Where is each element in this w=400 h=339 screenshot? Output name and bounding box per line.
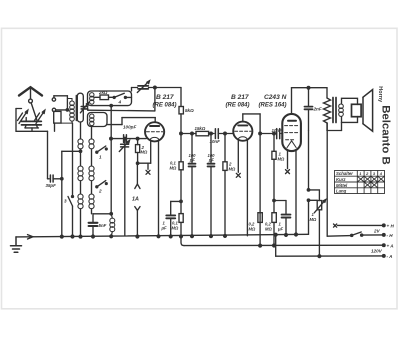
svg-text:B 217: B 217 — [156, 94, 174, 101]
vertical rail 111 — [110, 104, 113, 237]
svg-text:2: 2 — [98, 189, 102, 194]
battery line +A — [184, 244, 385, 247]
label 35pF — [46, 183, 57, 188]
grid resistor 2MOhm V2 — [223, 132, 227, 237]
tube V2 anode bar — [238, 124, 247, 126]
battery line -H with switch — [327, 232, 385, 236]
svg-text:- A: - A — [387, 254, 393, 259]
capacitor 1uF b — [282, 215, 291, 237]
svg-text:Schalter: Schalter — [336, 171, 353, 176]
label tube V1 — [153, 94, 177, 109]
antenna trimmer capacitor C-ant2 — [32, 121, 42, 125]
band switch box (coil box 1) — [88, 91, 132, 106]
label 1A — [132, 197, 139, 203]
label 15kOhm — [195, 126, 206, 131]
x mark V2 — [236, 173, 240, 177]
headphone jack 1A — [135, 163, 140, 238]
wire top feed — [52, 96, 67, 110]
resistor 0,2MOhm 1 — [258, 213, 262, 223]
svg-text:pF: pF — [208, 158, 215, 163]
speaker wires — [342, 98, 358, 122]
tube V1 filament — [150, 137, 159, 139]
tube V3 anode bar — [288, 120, 296, 122]
svg-text:2kΩ: 2kΩ — [98, 90, 108, 95]
svg-text:μF: μF — [161, 226, 168, 231]
svg-text:MΩ: MΩ — [170, 165, 177, 170]
wire 5nF tie — [93, 213, 112, 215]
svg-text:1: 1 — [99, 155, 102, 160]
svg-text:4: 4 — [379, 171, 383, 176]
label 0,2MOhm 1 — [249, 221, 256, 231]
resistor 2kOhm — [95, 95, 113, 100]
svg-text:100pF: 100pF — [123, 125, 136, 130]
label 0,1MOhm a — [170, 161, 177, 171]
x mark V1 — [146, 170, 150, 174]
capacitor 1uF a — [166, 215, 175, 237]
label 2MOhm V2 — [228, 162, 236, 172]
label 1uF a — [161, 221, 168, 231]
svg-text:MΩ: MΩ — [265, 226, 272, 231]
left vertical from antenna box — [16, 131, 48, 179]
svg-text:+ A: + A — [387, 243, 394, 248]
transformer core — [333, 98, 336, 123]
decoupling resistor 0,1MOhm a — [179, 134, 183, 214]
label 100pF grid — [123, 125, 136, 130]
arrow through C-ant1 — [18, 110, 28, 123]
svg-text:4: 4 — [118, 100, 122, 105]
junction node grid feed — [88, 86, 156, 111]
label 100pF 1 — [189, 153, 197, 162]
label 5kOhm — [185, 108, 194, 113]
vertical rail 72.5 with switch 3 — [68, 123, 74, 238]
label 0,2MOhm 2 — [265, 221, 272, 231]
table text — [336, 171, 383, 193]
wire pot to bus — [308, 200, 310, 234]
antenna coupling coil L1 — [61, 93, 83, 123]
feedback coil — [110, 214, 115, 237]
svg-text:Belcanto B: Belcanto B — [379, 105, 391, 165]
wire -A to bus — [274, 233, 277, 256]
tuning coil B — [89, 127, 94, 214]
cathode tee V1 — [136, 162, 150, 169]
title Belcanto B — [379, 105, 391, 165]
svg-text:- H: - H — [387, 233, 394, 238]
tube V2 grid dashes — [235, 130, 251, 132]
svg-text:(RE 084): (RE 084) — [226, 103, 250, 109]
coil L3 in box2 — [90, 114, 94, 126]
label -H — [387, 233, 394, 238]
tube V2 anode feed — [243, 114, 262, 247]
output transformer primary (zigzag) — [324, 88, 331, 131]
speaker horn — [363, 90, 373, 132]
label 100pF 2 — [208, 153, 216, 162]
wire transformer bottom tie — [309, 122, 342, 130]
svg-text:+ H: + H — [387, 224, 395, 229]
x mark V3 — [286, 170, 290, 174]
signal line stage1 — [180, 132, 196, 135]
svg-text:C243 N: C243 N — [264, 94, 287, 101]
label +A 120V — [371, 243, 394, 253]
capacitor 1uF a corner — [171, 200, 183, 215]
grid wire with 100pF to tube V1 — [110, 137, 147, 140]
svg-text:2nF: 2nF — [313, 106, 322, 111]
capacitor 1uF b corner — [273, 199, 286, 214]
label 10nF b — [272, 128, 283, 133]
capacitor 35pF — [48, 175, 62, 182]
resistor 5kOhm — [179, 88, 183, 134]
svg-text:pF: pF — [189, 158, 196, 163]
switch 1 — [96, 146, 107, 153]
transformer secondary coil — [339, 104, 344, 116]
capacitor 5nF — [89, 214, 98, 238]
wire top rail to trimmer — [132, 88, 182, 92]
tube V1 legs — [151, 141, 160, 238]
battery line -A — [276, 255, 385, 258]
table crosses — [357, 176, 384, 188]
label tube V3 — [259, 94, 287, 109]
svg-text:1: 1 — [359, 171, 362, 176]
ground bus — [16, 234, 309, 237]
vertical rail 64.5 — [60, 151, 80, 238]
resistor 0,2MOhm 2 — [272, 213, 276, 247]
svg-text:15kΩ: 15kΩ — [195, 126, 206, 131]
wire — [87, 108, 89, 111]
battery line +H — [334, 224, 386, 227]
label 2nF — [313, 106, 322, 111]
tube V2 B217 — [233, 122, 252, 141]
svg-text:MΩ: MΩ — [278, 156, 285, 161]
tube V3 C243N — [282, 114, 301, 151]
label 1 — [99, 155, 102, 160]
svg-text:Lang: Lang — [336, 189, 347, 194]
switch 4 — [113, 93, 131, 98]
label 0,1MOhm b — [172, 221, 179, 231]
label 10nF a — [210, 139, 221, 144]
svg-text:5kΩ: 5kΩ — [185, 108, 194, 113]
capacitor 100pF 2 — [208, 132, 215, 237]
antenna block wires — [16, 109, 39, 132]
tube V1 grid dashes — [146, 131, 162, 133]
svg-text:1A: 1A — [132, 197, 139, 203]
svg-text:μF: μF — [277, 226, 284, 231]
switch 2 — [96, 181, 107, 188]
trimmer capacitor C-t2 — [80, 102, 88, 112]
svg-text:(RE 084): (RE 084) — [153, 103, 177, 109]
antenna trimmer capacitor C-ant1 — [22, 121, 32, 125]
coupling coil terminals — [52, 108, 68, 111]
label -A — [387, 254, 393, 259]
label +H 2V — [373, 224, 394, 234]
tuning coil A — [78, 122, 83, 238]
switch table — [335, 171, 385, 194]
antenna connector circle — [29, 99, 33, 103]
label 1uF b — [277, 221, 284, 231]
capacitor 10nF b — [277, 129, 280, 139]
svg-text:Kurz: Kurz — [336, 177, 346, 182]
svg-text:MΩ: MΩ — [249, 226, 256, 231]
capacitor 2nF — [305, 88, 313, 190]
grid leak 1MOhm V3 — [272, 132, 276, 213]
label 3 — [64, 199, 67, 204]
svg-text:Mittel: Mittel — [336, 183, 348, 188]
label 4 — [118, 100, 122, 105]
coil L2 in box1 — [90, 93, 94, 105]
title Horny — [377, 86, 383, 103]
antenna — [19, 87, 42, 99]
label 2MOhm V1 — [141, 145, 148, 155]
label tube V2 — [226, 94, 250, 109]
svg-text:MΩ: MΩ — [172, 226, 179, 231]
svg-text:Horny: Horny — [377, 86, 383, 103]
svg-text:35pF: 35pF — [46, 183, 57, 188]
label 2kOhm — [98, 90, 108, 95]
svg-text:120V: 120V — [371, 249, 383, 254]
coil box 2 — [88, 113, 108, 127]
svg-text:3: 3 — [373, 171, 376, 176]
padding trimmer below grid wire — [119, 137, 129, 236]
svg-text:MΩ: MΩ — [229, 166, 236, 171]
resistor 15kOhm — [196, 131, 214, 135]
svg-text:MΩ: MΩ — [310, 217, 317, 222]
antenna input box — [54, 111, 61, 131]
capacitor 100pF grid — [124, 135, 127, 143]
wire heater drop — [326, 123, 328, 236]
bus arrow — [28, 235, 34, 239]
tube V2 legs — [238, 140, 247, 235]
svg-text:B 217: B 217 — [231, 94, 249, 101]
capacitor 10nF a — [215, 129, 233, 139]
tube V3 legs — [288, 151, 298, 236]
tube V3 filament — [287, 141, 296, 148]
grid leak chain 2MOhm V1 — [136, 137, 140, 163]
wire box1 to tube1 — [107, 118, 155, 125]
label 5nF — [99, 223, 107, 228]
ground symbol — [11, 237, 22, 252]
antenna selector switch arm — [31, 103, 37, 120]
tube V1 B217 — [145, 122, 164, 141]
arrow through C-ant2 — [35, 110, 45, 123]
tube V3 anode lead — [292, 86, 328, 114]
wire V3 grid line — [260, 133, 283, 135]
label 2 — [98, 189, 102, 194]
svg-text:2V: 2V — [373, 229, 381, 234]
main tuning capacitor C-var1 — [137, 81, 149, 93]
svg-text:MΩ: MΩ — [141, 149, 148, 154]
svg-text:2: 2 — [365, 171, 369, 176]
volume potentiometer 1MOhm — [307, 189, 325, 258]
tube V2 filament — [238, 137, 247, 139]
resistor 0,1MOhm b — [179, 214, 184, 246]
svg-text:5nF: 5nF — [99, 223, 107, 228]
label 1MOhm V3 — [278, 152, 285, 162]
label pot 1MOhm — [310, 212, 317, 222]
svg-text:(RES 164): (RES 164) — [259, 103, 287, 109]
svg-text:3: 3 — [64, 199, 67, 204]
tube V3 grid dashes — [285, 126, 298, 140]
speaker box — [352, 104, 362, 116]
capacitor 100pF 1 — [189, 132, 196, 237]
tube V1 anode bar — [150, 125, 159, 127]
